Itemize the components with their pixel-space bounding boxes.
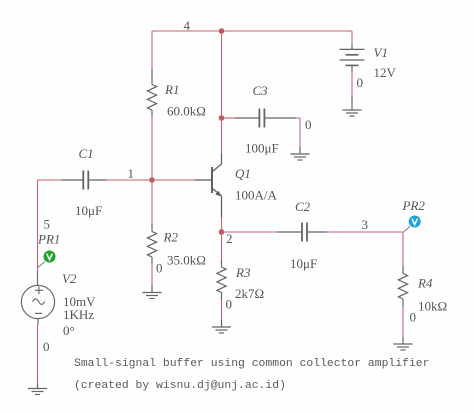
wire: C3 right to ground (296, 118, 300, 147)
wire: C3 left stub from collector column (222, 117, 237, 119)
wire: node 1 to Q1 base (152, 179, 196, 181)
svg-text:0: 0 (305, 117, 312, 132)
source V2 (21, 271, 54, 325)
wire: output column down to R4 (402, 232, 404, 267)
wire: input net from V2 to C1 (38, 179, 63, 181)
svg-text:35.0kΩ: 35.0kΩ (167, 253, 206, 268)
svg-text:2: 2 (226, 231, 233, 246)
svg-text:0°: 0° (63, 323, 75, 338)
wire: V1 top connection (351, 31, 353, 45)
svg-text:0: 0 (43, 339, 50, 354)
wire: R2 to ground (151, 264, 153, 285)
svg-text:10μF: 10μF (75, 203, 102, 218)
ground (V1) (343, 96, 362, 116)
svg-text:1KHz: 1KHz (63, 307, 94, 322)
svg-text:Q1: Q1 (235, 166, 251, 181)
wire: emitter red to node 2 (221, 217, 223, 232)
svg-text:PR1: PR1 (37, 232, 60, 247)
wire: net4 down to R1 (151, 31, 153, 69)
capacitor C3 (219, 109, 296, 128)
svg-text:3: 3 (362, 217, 369, 232)
capacitor C1 (61, 171, 106, 190)
svg-text:0: 0 (226, 297, 233, 312)
svg-text:R3: R3 (235, 265, 251, 280)
wire: top supply rail net 4 (152, 30, 352, 32)
wire: node 2 to C2 (222, 231, 279, 233)
svg-text:1: 1 (128, 166, 135, 181)
ground (C3) (291, 147, 310, 160)
svg-text:100μF: 100μF (245, 141, 279, 156)
ground (V2) (28, 384, 47, 395)
svg-text:4: 4 (184, 18, 191, 33)
svg-text:C3: C3 (253, 83, 269, 98)
svg-text:PR2: PR2 (402, 198, 426, 213)
svg-text:0: 0 (156, 261, 163, 276)
wire: C2 to output corner (327, 231, 403, 233)
resistor R2 (147, 224, 156, 264)
svg-text:V1: V1 (374, 45, 388, 60)
svg-text:100A/A: 100A/A (235, 188, 278, 203)
wire: R4 to ground (402, 307, 404, 337)
svg-text:(created by wisnu.dj@unj.ac.id: (created by wisnu.dj@unj.ac.id) (74, 380, 286, 392)
wire: input column down to V2 (37, 180, 39, 271)
resistor R1 (147, 69, 156, 117)
wire: R1 bottom to node 1 (151, 117, 153, 180)
svg-text:0: 0 (410, 310, 417, 325)
resistor R3 (217, 260, 226, 300)
transistor Q1 (195, 153, 222, 217)
svg-text:10kΩ: 10kΩ (418, 299, 447, 314)
svg-text:5: 5 (44, 217, 51, 232)
svg-text:V2: V2 (62, 271, 77, 286)
junction: net4 / collector column (219, 28, 225, 34)
wire: collector column net 4 down to C3 node (221, 31, 223, 118)
junction: node 2 (219, 229, 225, 235)
battery V1 (340, 44, 365, 72)
ground (R2) (143, 285, 162, 299)
wire: node 2 down to R3 (221, 232, 223, 261)
svg-text:R4: R4 (417, 276, 433, 291)
ground (R4) (394, 337, 413, 350)
svg-text:0: 0 (357, 75, 364, 90)
svg-text:C2: C2 (295, 199, 311, 214)
wire: C1 to node 1 (106, 179, 152, 181)
wire: R3 to ground (221, 300, 223, 320)
svg-text:60.0kΩ: 60.0kΩ (167, 104, 206, 119)
probe PR2 (404, 216, 421, 233)
svg-text:C1: C1 (79, 146, 94, 161)
junction: node 1 (149, 177, 155, 183)
wire: collector red to C3 node (221, 118, 223, 153)
probe PR1 (38, 251, 56, 268)
svg-text:10μF: 10μF (290, 256, 317, 271)
wire: V1 minus to ground (351, 72, 353, 96)
resistor R4 (398, 266, 407, 307)
capacitor C2 (277, 223, 327, 242)
svg-text:Small-signal buffer using comm: Small-signal buffer using common collect… (74, 358, 429, 370)
svg-text:R1: R1 (164, 82, 179, 97)
wire: node1 column down to R2 (151, 180, 153, 225)
ground (R3) (212, 320, 231, 333)
wire: V2 to ground (37, 325, 39, 384)
svg-text:R2: R2 (163, 230, 179, 245)
svg-text:2k7Ω: 2k7Ω (235, 286, 264, 301)
junction: C3 node on collector column (219, 115, 225, 121)
svg-text:12V: 12V (374, 65, 397, 80)
